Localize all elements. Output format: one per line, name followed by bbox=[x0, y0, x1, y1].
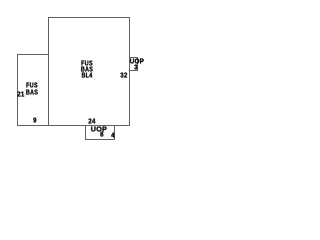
dimension 32 (main rect height) bbox=[120, 71, 127, 78]
dimension 21 (left rect height) bbox=[17, 90, 24, 97]
section left FUS/BAS outline bbox=[17, 54, 49, 126]
dimension 4 (bottom box height) bbox=[111, 132, 115, 139]
label FUS (left) bbox=[26, 82, 38, 89]
label BAS (left) bbox=[25, 88, 37, 95]
section main FUS/BAS/BL4 outline bbox=[48, 17, 130, 126]
dimension 24 (main rect width) bbox=[88, 117, 95, 124]
label FUS (main) bbox=[82, 60, 94, 67]
label UOP (bottom box) bbox=[91, 125, 107, 132]
section right UOP outline bbox=[129, 57, 139, 71]
label BL4 (main) bbox=[81, 72, 92, 79]
dimension 8 (bottom box width) bbox=[100, 130, 104, 137]
dimension 9 (left rect width) bbox=[33, 117, 37, 124]
section bottom UOP outline bbox=[85, 125, 115, 140]
dimension 3 (right box width) bbox=[134, 64, 138, 71]
label BAS (main) bbox=[81, 66, 93, 73]
label UOP (right box) bbox=[130, 57, 144, 64]
